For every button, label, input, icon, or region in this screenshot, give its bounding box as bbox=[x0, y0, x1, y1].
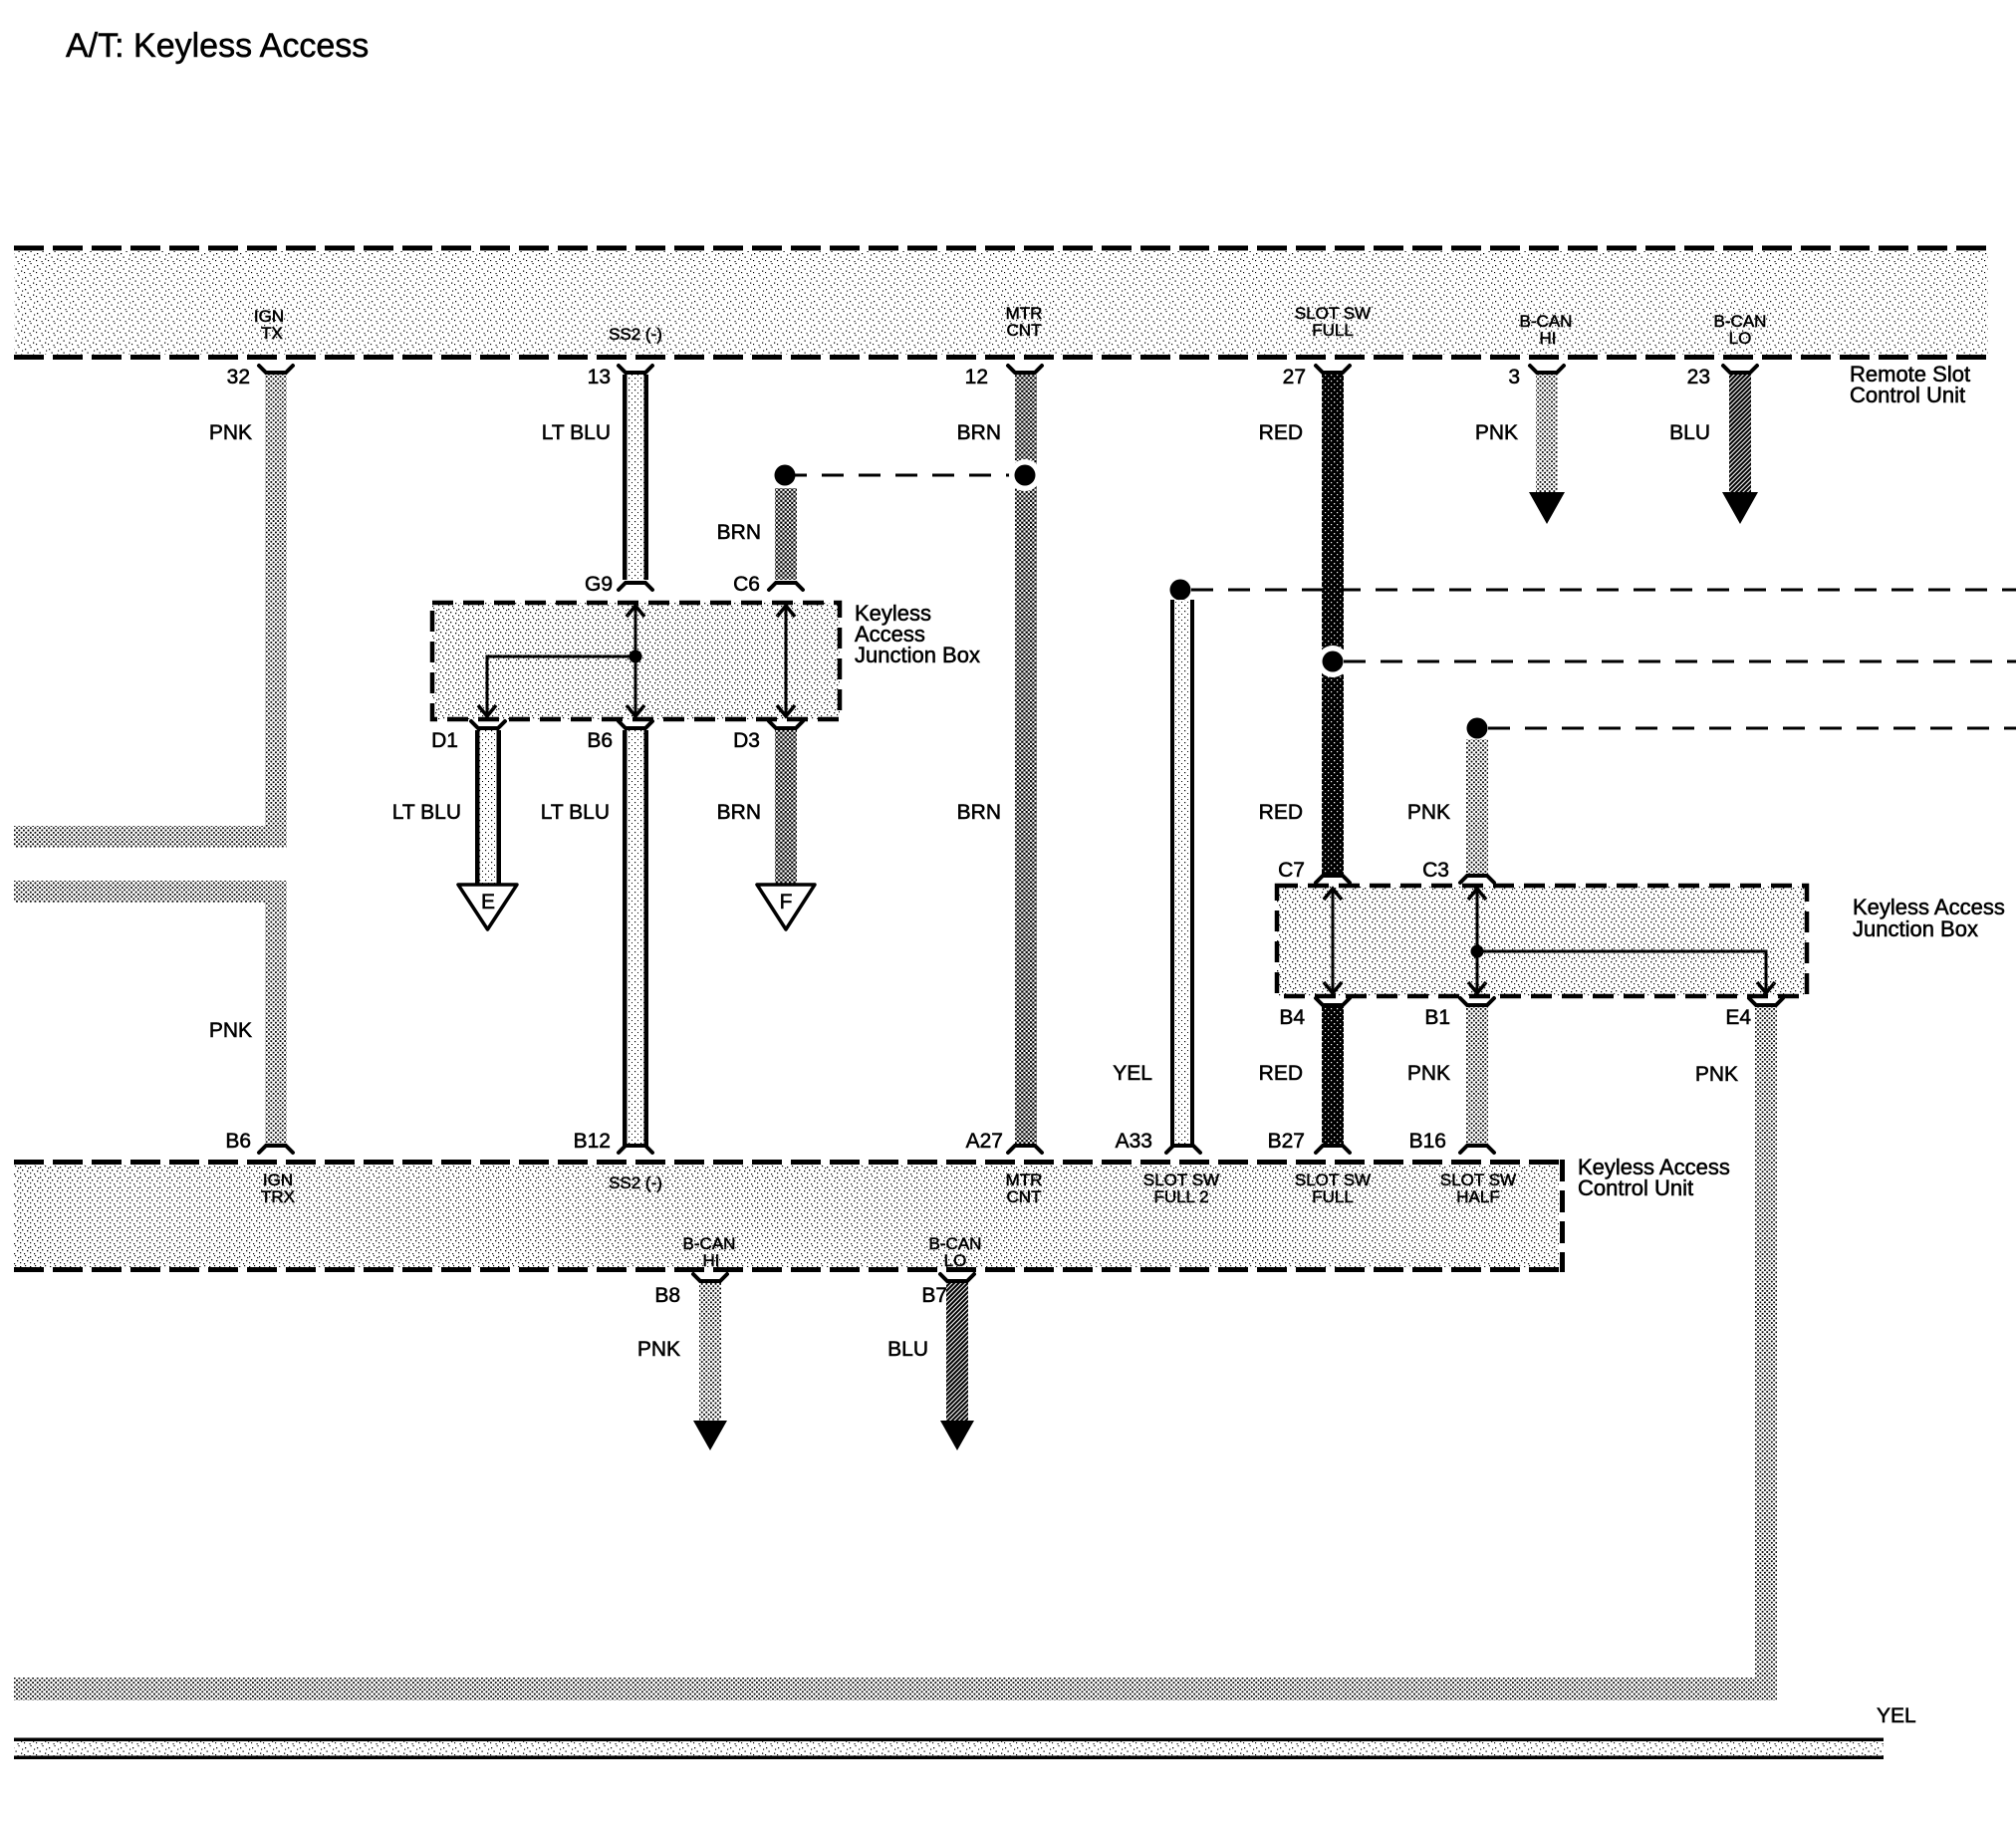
svg-text:RED: RED bbox=[1259, 421, 1303, 444]
label LT BLU (wire 13) bbox=[542, 421, 611, 444]
internal link C3-B1 (double arrow) bbox=[1468, 889, 1486, 993]
svg-text:TRX: TRX bbox=[261, 1187, 295, 1206]
svg-text:12: 12 bbox=[965, 366, 988, 389]
wire BRN pin 12 to A27 bbox=[1015, 375, 1037, 1148]
label LT BLU (wire B6-B12) bbox=[541, 801, 610, 824]
svg-text:32: 32 bbox=[227, 366, 250, 389]
svg-text:BRN: BRN bbox=[957, 801, 1001, 824]
wire YEL horizontal (bottom) bbox=[14, 1738, 1884, 1760]
svg-text:PNK: PNK bbox=[209, 1019, 252, 1042]
junction dot PNK C3 branch bbox=[1467, 718, 1488, 739]
pin B12 bbox=[574, 1130, 652, 1153]
junction box Keyless Access Junction Box (left) bbox=[432, 603, 840, 719]
internal link G9-B6 (double arrow) bbox=[627, 606, 644, 716]
svg-text:B16: B16 bbox=[1409, 1130, 1446, 1153]
wire BLU pin 23 with arrow bbox=[1722, 375, 1758, 524]
svg-text:PNK: PNK bbox=[1407, 1062, 1450, 1085]
pin 3 bbox=[1508, 366, 1564, 389]
label PNK (wire B8) bbox=[637, 1338, 680, 1361]
svg-text:LT BLU: LT BLU bbox=[541, 801, 610, 824]
svg-text:Junction Box: Junction Box bbox=[1853, 916, 1978, 941]
svg-text:B12: B12 bbox=[574, 1130, 611, 1153]
wire BRN dot to C6 bbox=[775, 488, 797, 580]
unit Remote Slot Control Unit (top band) bbox=[14, 248, 1988, 358]
wire PNK from left edge to pin B6 bbox=[14, 881, 287, 1148]
internal link to E4 bbox=[1477, 951, 1775, 993]
svg-text:PNK: PNK bbox=[1407, 801, 1450, 824]
junction dot on wire 12 bbox=[1009, 459, 1041, 491]
label PNK (wire E4) bbox=[1695, 1063, 1738, 1086]
svg-text:D1: D1 bbox=[431, 729, 458, 752]
svg-text:HI: HI bbox=[703, 1251, 720, 1270]
pin D1 bbox=[431, 721, 505, 752]
pin A33 bbox=[1116, 1130, 1200, 1153]
svg-text:BRN: BRN bbox=[717, 521, 761, 544]
svg-text:E: E bbox=[481, 891, 495, 913]
pin 23 bbox=[1687, 366, 1757, 389]
svg-text:HI: HI bbox=[1540, 329, 1557, 348]
svg-text:B27: B27 bbox=[1268, 1130, 1305, 1153]
svg-text:B6: B6 bbox=[225, 1130, 251, 1153]
svg-text:PNK: PNK bbox=[1695, 1063, 1738, 1086]
pin B6 (junction box) bbox=[587, 721, 652, 752]
svg-text:3: 3 bbox=[1508, 366, 1520, 389]
pin 32 bbox=[227, 366, 293, 389]
svg-text:YEL: YEL bbox=[1113, 1062, 1152, 1085]
label BLU (wire B7) bbox=[887, 1338, 928, 1361]
pin C6 bbox=[733, 573, 803, 596]
wire LT BLU D1 to connector E bbox=[475, 730, 501, 885]
pin A27 bbox=[966, 1130, 1042, 1153]
label YEL (wire A33) bbox=[1113, 1062, 1152, 1085]
label BRN (wire 12) bbox=[957, 421, 1001, 444]
wire BLU B7 with arrow bbox=[940, 1283, 974, 1450]
junction box Keyless Access Junction Box (right) bbox=[1277, 886, 1807, 996]
pin B6 (control unit) bbox=[225, 1130, 293, 1153]
label BRN (wire C6) bbox=[717, 521, 761, 544]
wire RED B4 to B27 bbox=[1322, 1007, 1344, 1148]
label RED (wire C7) bbox=[1259, 801, 1303, 824]
svg-text:F: F bbox=[780, 891, 793, 913]
svg-text:SS2 (-): SS2 (-) bbox=[609, 1174, 662, 1192]
svg-text:FULL: FULL bbox=[1312, 1187, 1354, 1206]
svg-text:LO: LO bbox=[944, 1251, 967, 1270]
svg-text:Control Unit: Control Unit bbox=[1578, 1175, 1693, 1200]
unit Keyless Access Control Unit (bottom band) bbox=[14, 1160, 1565, 1272]
svg-text:PNK: PNK bbox=[637, 1338, 680, 1361]
label SLOT SW HALF (pin B16 function) bbox=[1440, 1171, 1516, 1206]
dashed link BRN branch bbox=[785, 474, 1025, 477]
label YEL (bottom wire) bbox=[1877, 1704, 1916, 1727]
label B-CAN HI (pin 3 function) bbox=[1520, 312, 1573, 348]
pin B16 bbox=[1409, 1130, 1494, 1153]
svg-text:D3: D3 bbox=[733, 729, 760, 752]
internal junction dot (left box) bbox=[630, 651, 642, 663]
label BRN (wire D3) bbox=[717, 801, 761, 824]
label PNK (wire B16) bbox=[1407, 1062, 1450, 1085]
wire LT BLU B6 to B12 bbox=[623, 730, 648, 1148]
label BRN (wire 12 lower) bbox=[957, 801, 1001, 824]
label Keyless Access Junction Box (right) bbox=[1853, 895, 2005, 941]
internal link C7-B4 (double arrow) bbox=[1324, 889, 1342, 993]
svg-text:RED: RED bbox=[1259, 801, 1303, 824]
label Keyless Access Control Unit bbox=[1578, 1155, 1730, 1200]
label IGN TRX (pin B6 function) bbox=[261, 1171, 295, 1206]
svg-text:C3: C3 bbox=[1422, 859, 1449, 882]
svg-text:LT BLU: LT BLU bbox=[542, 421, 611, 444]
wire PNK from pin 32 (L to left edge) bbox=[14, 375, 287, 848]
svg-text:A33: A33 bbox=[1116, 1130, 1152, 1153]
wire PNK pin 3 with arrow bbox=[1529, 375, 1565, 524]
label PNK (wire 32) bbox=[209, 421, 252, 444]
svg-text:BRN: BRN bbox=[717, 801, 761, 824]
label PNK (wire C3) bbox=[1407, 801, 1450, 824]
dashed link from SLOT SW FULL 2 branch to right edge bbox=[1191, 589, 2016, 592]
wire PNK dot to C3 bbox=[1466, 739, 1488, 876]
connector E bbox=[458, 885, 517, 929]
svg-text:FULL 2: FULL 2 bbox=[1153, 1187, 1208, 1206]
svg-text:RED: RED bbox=[1259, 1062, 1303, 1085]
label MTR CNT (pin 12 function) bbox=[1006, 304, 1043, 340]
wire YEL dot to A33 bbox=[1170, 600, 1194, 1148]
svg-text:E4: E4 bbox=[1725, 1006, 1751, 1029]
svg-text:CNT: CNT bbox=[1007, 321, 1042, 340]
pin B1 bbox=[1424, 998, 1494, 1029]
wire PNK B1 to B16 bbox=[1466, 1007, 1488, 1148]
wire RED pin 27 to C7 bbox=[1322, 375, 1344, 876]
label RED (wire 27) bbox=[1259, 421, 1303, 444]
svg-text:G9: G9 bbox=[585, 573, 613, 596]
internal link to D1 bbox=[478, 656, 635, 716]
svg-text:B1: B1 bbox=[1424, 1006, 1450, 1029]
svg-text:LO: LO bbox=[1729, 329, 1752, 348]
label B-CAN HI (pin B8 function) bbox=[683, 1234, 736, 1270]
wire PNK E4 (L to left edge bottom) bbox=[14, 1007, 1777, 1700]
label SLOT SW FULL (pin 27 function) bbox=[1295, 304, 1371, 340]
label BLU (wire 23) bbox=[1669, 421, 1710, 444]
pin C3 bbox=[1422, 859, 1494, 883]
label B-CAN LO (pin 23 function) bbox=[1714, 312, 1767, 348]
svg-text:BLU: BLU bbox=[887, 1338, 928, 1361]
label Remote Slot Control Unit bbox=[1850, 362, 1970, 407]
wire PNK B8 with arrow bbox=[693, 1283, 727, 1450]
pin B7 bbox=[921, 1274, 974, 1307]
svg-text:TX: TX bbox=[261, 324, 283, 343]
svg-text:B4: B4 bbox=[1279, 1006, 1305, 1029]
pin G9 bbox=[585, 573, 652, 596]
label IGN TX (pin 32 function) bbox=[254, 307, 284, 343]
svg-text:PNK: PNK bbox=[1475, 421, 1518, 444]
label SLOT SW FULL 2 (pin A33 function) bbox=[1143, 1171, 1219, 1206]
svg-text:FULL: FULL bbox=[1312, 321, 1354, 340]
svg-text:CNT: CNT bbox=[1007, 1187, 1042, 1206]
svg-text:LT BLU: LT BLU bbox=[392, 801, 461, 824]
label B-CAN LO (pin B7 function) bbox=[929, 1234, 982, 1270]
title bbox=[66, 27, 369, 65]
wire LT BLU pin 13 to G9 bbox=[623, 375, 648, 580]
svg-text:BLU: BLU bbox=[1669, 421, 1710, 444]
svg-text:23: 23 bbox=[1687, 366, 1710, 389]
svg-text:27: 27 bbox=[1283, 366, 1306, 389]
internal junction dot (right box) bbox=[1471, 945, 1484, 958]
connector F bbox=[757, 885, 815, 929]
label PNK (wire B6) bbox=[209, 1019, 252, 1042]
svg-text:PNK: PNK bbox=[209, 421, 252, 444]
svg-text:B6: B6 bbox=[587, 729, 613, 752]
svg-text:C6: C6 bbox=[733, 573, 760, 596]
label MTR CNT (pin A27 function) bbox=[1006, 1171, 1043, 1206]
dashed link from PNK C3 dot to right edge bbox=[1488, 727, 2016, 730]
junction dot on wire 27 bbox=[1317, 646, 1349, 677]
svg-text:BRN: BRN bbox=[957, 421, 1001, 444]
pin C7 bbox=[1278, 859, 1350, 883]
label SS2 (-) (pin 13 function) bbox=[609, 325, 662, 344]
internal link C6-D3 (double arrow) bbox=[777, 606, 795, 716]
junction dot SLOT SW FULL 2 branch bbox=[1170, 580, 1191, 601]
svg-text:A/T: Keyless Access: A/T: Keyless Access bbox=[66, 27, 369, 65]
svg-text:B8: B8 bbox=[654, 1284, 680, 1307]
svg-text:13: 13 bbox=[588, 366, 611, 389]
label SS2 (-) (pin B12 function) bbox=[609, 1174, 662, 1192]
pin 12 bbox=[965, 366, 1042, 389]
svg-text:Junction Box: Junction Box bbox=[855, 643, 980, 667]
label RED (wire B27) bbox=[1259, 1062, 1303, 1085]
junction dot on BRN branch bbox=[775, 465, 796, 486]
label Keyless Access Junction Box (left) bbox=[855, 601, 980, 667]
pin D3 bbox=[733, 721, 803, 752]
label SLOT SW FULL (pin B27 function) bbox=[1295, 1171, 1371, 1206]
wire BRN D3 to connector F bbox=[775, 730, 797, 885]
pin B8 bbox=[654, 1274, 727, 1307]
svg-text:HALF: HALF bbox=[1456, 1187, 1499, 1206]
pin E4 bbox=[1725, 998, 1783, 1029]
svg-text:Control Unit: Control Unit bbox=[1850, 383, 1965, 407]
pin 13 bbox=[588, 366, 652, 389]
svg-text:A27: A27 bbox=[966, 1130, 1003, 1153]
pin B27 bbox=[1268, 1130, 1350, 1153]
dashed link from wire 27 dot to right edge bbox=[1344, 660, 2016, 663]
svg-text:C7: C7 bbox=[1278, 859, 1305, 882]
svg-text:YEL: YEL bbox=[1877, 1704, 1916, 1727]
pin B4 bbox=[1279, 998, 1350, 1029]
svg-text:B7: B7 bbox=[921, 1284, 947, 1307]
svg-text:SS2 (-): SS2 (-) bbox=[609, 325, 662, 344]
label PNK (wire 3) bbox=[1475, 421, 1518, 444]
label LT BLU (wire D1) bbox=[392, 801, 461, 824]
pin 27 bbox=[1283, 366, 1350, 389]
